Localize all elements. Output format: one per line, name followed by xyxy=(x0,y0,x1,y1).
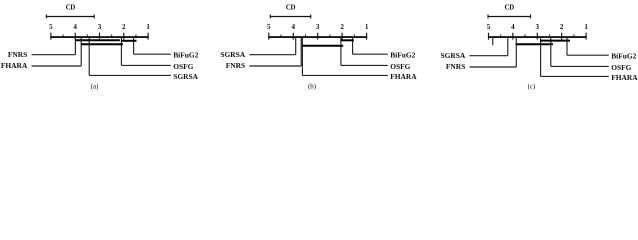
svg-text:(b): (b) xyxy=(308,83,316,90)
svg-text:FHARA: FHARA xyxy=(390,72,417,81)
svg-text:2: 2 xyxy=(560,23,564,31)
svg-text:CD: CD xyxy=(66,5,76,12)
svg-text:4: 4 xyxy=(291,23,295,31)
svg-text:FHARA: FHARA xyxy=(1,61,28,70)
svg-text:2: 2 xyxy=(122,23,126,31)
svg-text:CD: CD xyxy=(505,5,515,12)
svg-text:4: 4 xyxy=(511,23,515,31)
svg-text:5: 5 xyxy=(267,23,271,31)
svg-text:(a): (a) xyxy=(91,83,99,90)
svg-text:OSFG: OSFG xyxy=(611,63,631,72)
svg-text:5: 5 xyxy=(487,23,491,31)
svg-text:CD: CD xyxy=(286,5,296,12)
svg-text:SGRSA: SGRSA xyxy=(440,51,465,60)
svg-text:5: 5 xyxy=(49,23,53,31)
svg-text:SGRSA: SGRSA xyxy=(220,50,245,59)
svg-text:OSFG: OSFG xyxy=(390,62,410,71)
svg-text:1: 1 xyxy=(584,23,588,31)
svg-text:1: 1 xyxy=(146,23,150,31)
svg-text:BiFuG2: BiFuG2 xyxy=(390,51,415,60)
svg-text:4: 4 xyxy=(73,23,77,31)
svg-text:(c): (c) xyxy=(528,83,536,90)
svg-text:BiFuG2: BiFuG2 xyxy=(173,51,198,60)
svg-text:FHARA: FHARA xyxy=(611,73,638,82)
svg-text:3: 3 xyxy=(316,23,320,31)
svg-text:3: 3 xyxy=(536,23,540,31)
svg-text:OSFG: OSFG xyxy=(173,62,193,71)
svg-text:SGRSA: SGRSA xyxy=(173,72,198,81)
svg-text:2: 2 xyxy=(340,23,344,31)
svg-text:FNRS: FNRS xyxy=(8,50,27,59)
svg-text:FNRS: FNRS xyxy=(226,61,245,70)
svg-text:1: 1 xyxy=(365,23,369,31)
svg-text:3: 3 xyxy=(98,23,102,31)
svg-text:FNRS: FNRS xyxy=(446,62,465,71)
svg-text:BiFuG2: BiFuG2 xyxy=(611,52,636,61)
